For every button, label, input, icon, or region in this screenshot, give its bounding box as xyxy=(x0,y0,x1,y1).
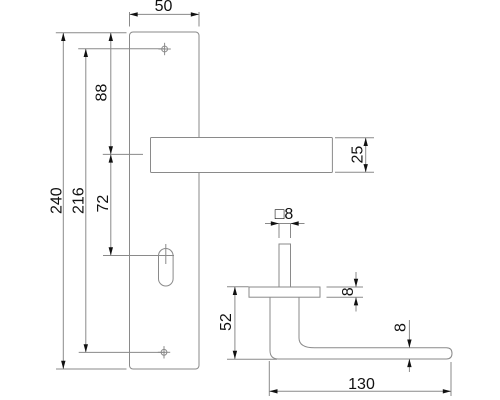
dimension 130 xyxy=(269,361,451,396)
rose plate (side view) xyxy=(249,287,320,297)
dimension 50 xyxy=(130,0,200,27)
dimension 8 rose thickness xyxy=(327,272,364,312)
dimension 52 xyxy=(218,287,277,359)
svg-text:□8: □8 xyxy=(275,206,294,223)
svg-text:25: 25 xyxy=(350,146,367,164)
backplate outline (front view) xyxy=(130,32,200,369)
dimension 88 xyxy=(94,33,114,155)
extension line plate top xyxy=(56,32,127,34)
svg-text:72: 72 xyxy=(95,195,112,213)
dimension 216 xyxy=(71,49,89,353)
extension line bottom screw center xyxy=(79,351,165,353)
svg-text:130: 130 xyxy=(348,376,375,393)
handle bar (front view) xyxy=(151,138,333,173)
dimension 240 xyxy=(49,33,66,369)
extension line handle center xyxy=(103,153,143,155)
extension line plate bottom xyxy=(56,368,127,370)
svg-text:216: 216 xyxy=(71,187,88,214)
dimension 25 xyxy=(335,138,374,173)
dimension 72 xyxy=(95,154,113,255)
top screw hole xyxy=(158,43,170,55)
svg-text:50: 50 xyxy=(155,0,173,15)
svg-text:88: 88 xyxy=(94,84,111,102)
svg-text:52: 52 xyxy=(218,313,235,331)
svg-text:240: 240 xyxy=(49,187,66,214)
svg-text:8: 8 xyxy=(393,323,410,332)
extension line top screw center xyxy=(78,48,165,50)
bottom screw hole xyxy=(158,346,170,358)
dimension square-8 spindle xyxy=(265,206,305,238)
extension line keyhole center xyxy=(103,255,174,257)
dimension 8 lever thickness xyxy=(393,320,412,372)
svg-text:8: 8 xyxy=(340,287,357,296)
keyhole xyxy=(159,244,174,286)
lever handle (side view) xyxy=(270,297,452,359)
spindle (side view) xyxy=(279,244,291,287)
